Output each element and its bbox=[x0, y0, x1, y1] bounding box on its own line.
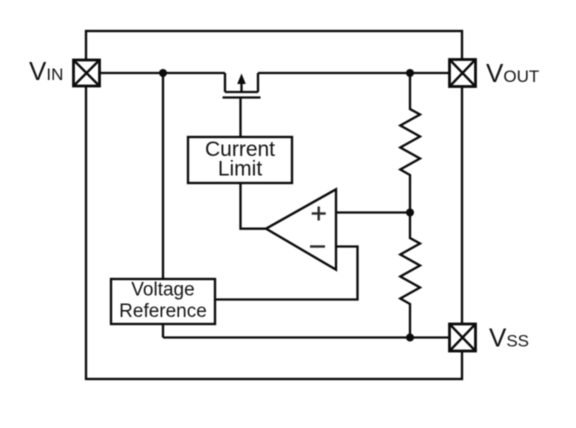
svg-text:Limit: Limit bbox=[218, 158, 263, 181]
node junction at VIN wire bbox=[159, 69, 167, 77]
pad VIN bbox=[74, 60, 100, 86]
transistor Q1 arrow bbox=[237, 74, 246, 85]
op-amp minus input marker bbox=[310, 245, 325, 247]
wire plus input to divider tap bbox=[336, 211, 410, 213]
resistor R2 lower divider bbox=[400, 213, 420, 338]
wire node A vertical to Voltage Reference bbox=[162, 73, 164, 279]
svg-text:Reference: Reference bbox=[119, 301, 207, 322]
outer IC boundary box bbox=[86, 31, 462, 379]
svg-text:Voltage: Voltage bbox=[131, 280, 194, 301]
wire minus input feedback to Voltage Reference bbox=[215, 247, 358, 300]
block Voltage Reference bbox=[111, 279, 215, 324]
op-amp U1 error amplifier bbox=[266, 189, 336, 269]
wire Current Limit to op-amp output bbox=[241, 183, 267, 229]
node junction at VSS rail bbox=[406, 334, 414, 342]
wire MOSFET drain to VOUT bbox=[258, 72, 450, 74]
node junction at VOUT wire bbox=[406, 69, 414, 77]
transistor Q1 PMOS pass device bbox=[223, 73, 261, 137]
wire VIN to MOSFET source bbox=[99, 72, 225, 74]
wire VSS rail bbox=[163, 336, 450, 338]
block Current Limit bbox=[188, 137, 292, 183]
wire Voltage Reference bottom to VSS rail bbox=[162, 324, 164, 338]
resistor R1 upper divider bbox=[400, 73, 420, 213]
pad VOUT bbox=[450, 60, 476, 87]
op-amp plus input marker bbox=[312, 207, 326, 221]
node junction divider tap bbox=[406, 209, 414, 217]
pad VSS bbox=[450, 324, 476, 351]
